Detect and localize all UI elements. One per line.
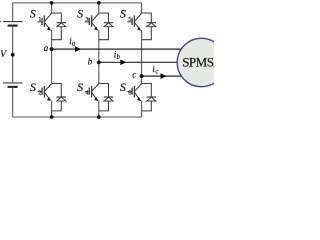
svg-text:5: 5: [128, 16, 131, 23]
transistor S4 (IGBT): [85, 84, 99, 101]
transistor S3 (IGBT): [85, 13, 99, 30]
wire loop of S4 freewheel branch: [99, 84, 109, 111]
svg-text:S: S: [30, 80, 36, 94]
node midpoint junction: [11, 53, 15, 57]
wire left column top segment: [12, 2, 14, 21]
motor M1 SPMSM: [177, 38, 225, 86]
wire loop of S5 freewheel branch: [142, 13, 152, 40]
wire leg a mid2: node to S2: [51, 49, 53, 83]
wire phase c output line: [142, 75, 182, 77]
transistor S1 (IGBT): [37, 13, 51, 30]
battery V1 (upper DC source): [3, 22, 23, 26]
wire leg a mid: loop to node a: [51, 30, 53, 49]
svg-text:SPMSM: SPMSM: [182, 55, 214, 70]
node top rail junction leg a: [50, 1, 54, 5]
wire leg b lower: to bottom rail: [98, 101, 100, 118]
diode D2 antiparallel of S2: [57, 97, 66, 101]
wire leg b mid2: node to S4: [98, 62, 100, 83]
wire loop of S1 freewheel branch: [52, 13, 62, 40]
diode D3 antiparallel of S3: [104, 23, 113, 27]
diode D4 antiparallel of S4: [104, 97, 113, 101]
svg-text:S: S: [77, 6, 83, 20]
svg-text:1: 1: [38, 16, 41, 23]
diode D6 antiparallel of S6: [147, 97, 156, 101]
node bottom rail junction leg b: [97, 115, 101, 119]
svg-text:c: c: [155, 69, 158, 76]
svg-text:b: b: [117, 54, 121, 61]
wire leg c upper: rail to S5: [141, 3, 143, 13]
wire loop of S3 freewheel branch: [99, 13, 109, 40]
svg-text:S: S: [77, 80, 83, 94]
svg-text:S: S: [120, 6, 126, 20]
transistor S6 (IGBT): [127, 84, 141, 101]
svg-text:a: a: [72, 41, 76, 48]
node a: [50, 47, 54, 51]
arrow current i_a: [75, 46, 81, 52]
svg-text:3: 3: [85, 16, 88, 23]
node top rail junction leg b: [97, 1, 101, 5]
transistor S2 (IGBT): [37, 84, 51, 101]
transistor S5 (IGBT): [127, 13, 141, 30]
wire bottom DC rail (-): [13, 116, 142, 118]
wire loop of S2 freewheel branch: [52, 84, 62, 111]
arrow current i_c: [161, 73, 167, 79]
wire top DC rail (+): [13, 2, 142, 4]
battery V2 (lower DC source): [3, 83, 23, 87]
wire leg c lower: to bottom rail: [141, 101, 143, 118]
wire leg a lower: to bottom rail: [51, 101, 53, 118]
node c: [140, 74, 144, 78]
wire loop of S6 freewheel branch: [142, 84, 152, 111]
wire phase b output line: [99, 61, 177, 63]
wire leg a upper: rail to S1: [51, 3, 53, 13]
svg-text:a: a: [44, 43, 49, 53]
wire phase a output line: [52, 48, 182, 50]
label + (clipped at edge): [0, 20, 1, 22]
svg-text:2: 2: [38, 90, 41, 97]
arrow current i_b: [120, 60, 126, 66]
svg-text:b: b: [88, 56, 93, 66]
wire leg b upper: rail to S3: [98, 3, 100, 13]
diode D1 antiparallel of S1: [57, 23, 66, 27]
wire leg c mid2: node to S6: [141, 76, 143, 83]
svg-text:6: 6: [128, 90, 131, 97]
node bottom rail junction leg a: [50, 115, 54, 119]
diode D5 antiparallel of S5: [147, 23, 156, 27]
wire leg b mid: loop to node b: [98, 30, 100, 62]
wire leg c mid: loop to node c: [141, 30, 143, 76]
wire left column bottom segment: [12, 87, 14, 117]
node b: [97, 60, 101, 64]
svg-text:S: S: [120, 80, 126, 94]
wire left column middle segment: [12, 26, 14, 83]
svg-text:c: c: [132, 69, 136, 79]
svg-text:S: S: [30, 6, 36, 20]
